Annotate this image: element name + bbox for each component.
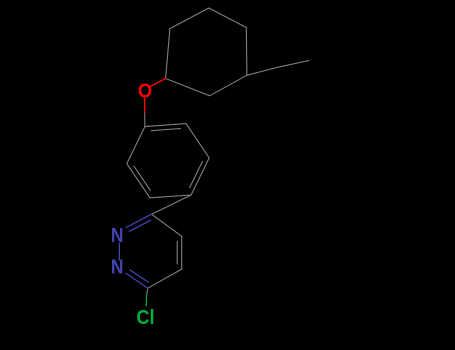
svg-text:Cl: Cl <box>136 306 154 329</box>
svg-text:N: N <box>111 224 124 247</box>
svg-text:O: O <box>138 80 152 103</box>
svg-text:N: N <box>111 256 124 279</box>
